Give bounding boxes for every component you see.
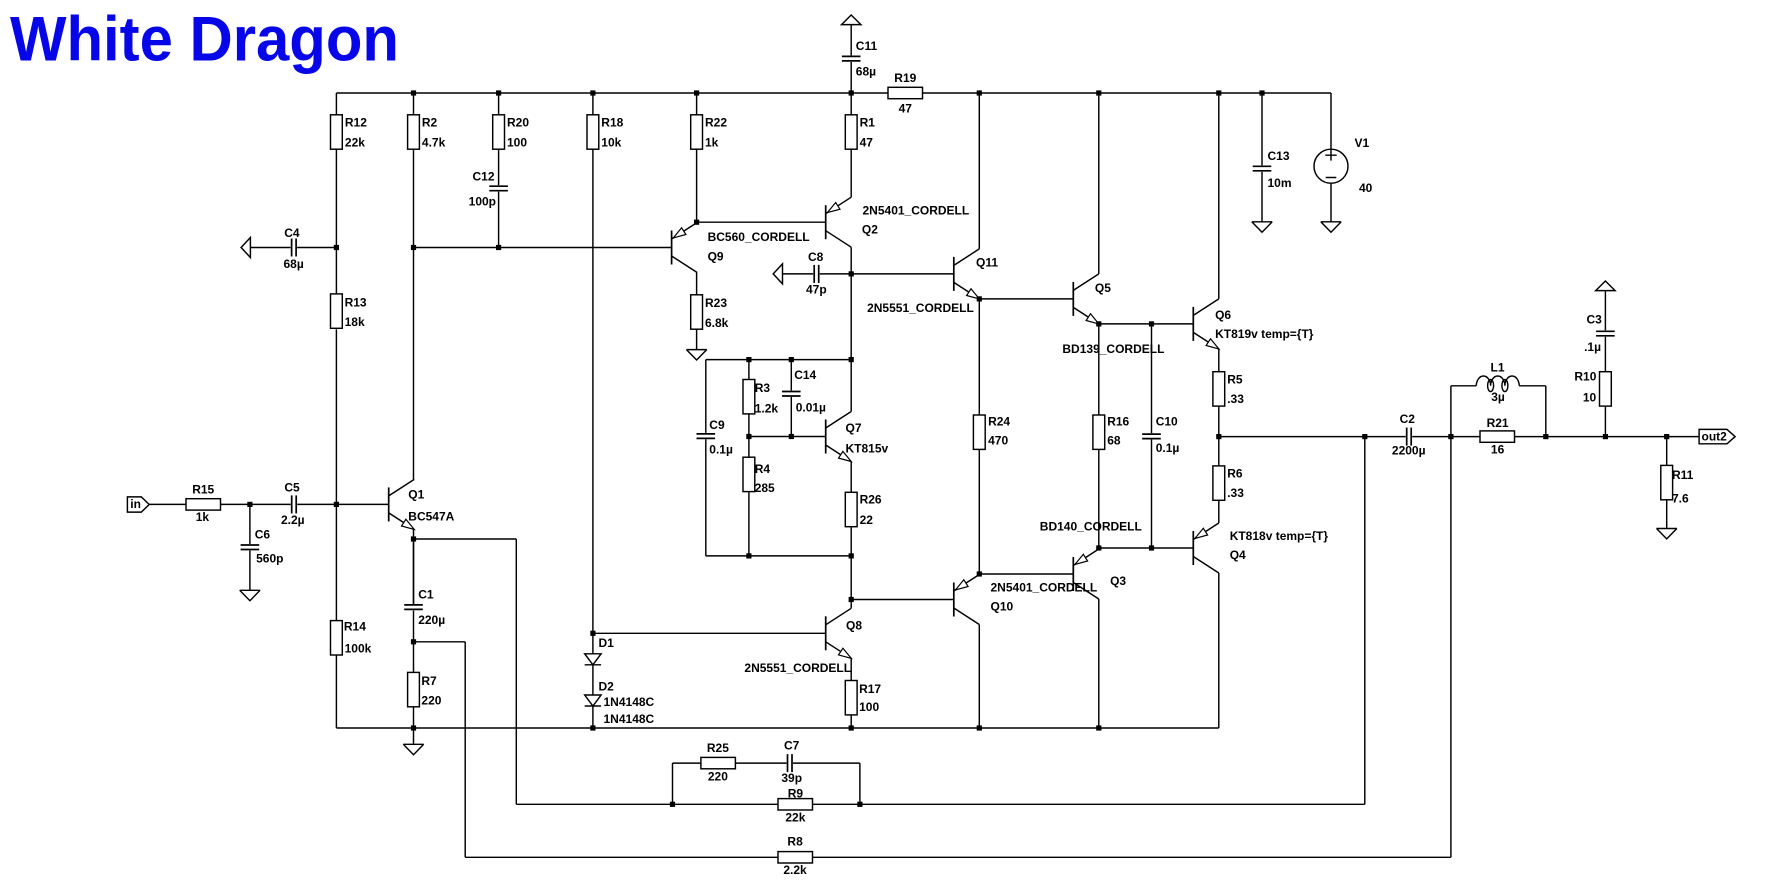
- svg-text:68µ: 68µ: [856, 64, 876, 78]
- svg-text:.33: .33: [1227, 486, 1244, 500]
- svg-text:Q5: Q5: [1095, 281, 1111, 295]
- svg-text:68: 68: [1107, 434, 1121, 448]
- svg-text:C6: C6: [255, 527, 271, 541]
- svg-text:4.7k: 4.7k: [422, 136, 446, 150]
- svg-text:220: 220: [708, 769, 728, 783]
- svg-text:R5: R5: [1227, 372, 1243, 386]
- svg-text:22k: 22k: [345, 136, 365, 150]
- svg-text:2.2µ: 2.2µ: [281, 513, 305, 527]
- svg-text:285: 285: [755, 481, 775, 495]
- svg-text:R14: R14: [344, 620, 366, 634]
- svg-text:C2: C2: [1400, 412, 1416, 426]
- svg-text:47: 47: [860, 136, 874, 150]
- svg-text:R24: R24: [988, 415, 1010, 429]
- svg-text:10: 10: [1583, 391, 1597, 405]
- svg-text:Q1: Q1: [408, 488, 424, 502]
- svg-text:R7: R7: [421, 674, 437, 688]
- svg-text:C9: C9: [709, 418, 725, 432]
- svg-text:C3: C3: [1586, 313, 1602, 327]
- svg-text:2N5551_CORDELL: 2N5551_CORDELL: [744, 661, 851, 675]
- svg-text:470: 470: [988, 434, 1008, 448]
- svg-text:2N5401_CORDELL: 2N5401_CORDELL: [991, 580, 1098, 594]
- svg-text:.33: .33: [1227, 392, 1244, 406]
- svg-text:68µ: 68µ: [284, 257, 304, 271]
- svg-text:R2: R2: [422, 116, 438, 130]
- svg-text:1N4148C: 1N4148C: [604, 695, 655, 709]
- svg-text:L1: L1: [1490, 361, 1504, 375]
- svg-text:47p: 47p: [806, 283, 827, 297]
- svg-text:R23: R23: [705, 296, 727, 310]
- svg-text:BC560_CORDELL: BC560_CORDELL: [708, 230, 810, 244]
- svg-text:1N4148C: 1N4148C: [604, 712, 655, 726]
- svg-text:C10: C10: [1156, 415, 1178, 429]
- svg-text:Q2: Q2: [862, 223, 878, 237]
- svg-text:7.6: 7.6: [1672, 491, 1689, 505]
- svg-text:BC547A: BC547A: [408, 509, 454, 523]
- svg-text:0.01µ: 0.01µ: [796, 400, 826, 414]
- svg-text:in: in: [130, 497, 141, 511]
- svg-text:16: 16: [1491, 442, 1505, 456]
- svg-text:R3: R3: [755, 381, 771, 395]
- svg-text:220µ: 220µ: [418, 613, 445, 627]
- svg-text:1k: 1k: [705, 136, 719, 150]
- svg-text:R21: R21: [1487, 416, 1509, 430]
- svg-text:.1µ: .1µ: [1584, 340, 1601, 354]
- svg-text:6.8k: 6.8k: [705, 316, 729, 330]
- svg-text:Q6: Q6: [1215, 308, 1231, 322]
- svg-text:10m: 10m: [1268, 176, 1292, 190]
- svg-text:C4: C4: [284, 226, 300, 240]
- svg-text:C11: C11: [856, 39, 878, 53]
- svg-text:R8: R8: [787, 835, 803, 849]
- svg-text:D2: D2: [599, 679, 615, 693]
- svg-text:Q9: Q9: [708, 249, 724, 263]
- svg-text:R16: R16: [1107, 415, 1129, 429]
- svg-text:100p: 100p: [469, 195, 496, 209]
- svg-text:R9: R9: [788, 786, 804, 800]
- svg-text:V1: V1: [1355, 136, 1370, 150]
- svg-text:R17: R17: [859, 682, 881, 696]
- svg-text:0.1µ: 0.1µ: [709, 443, 733, 457]
- svg-text:C8: C8: [808, 250, 824, 264]
- svg-text:White Dragon: White Dragon: [10, 4, 399, 74]
- svg-text:C5: C5: [284, 481, 300, 495]
- svg-text:out2: out2: [1702, 429, 1728, 443]
- svg-text:Q7: Q7: [846, 421, 862, 435]
- svg-text:KT815v: KT815v: [846, 441, 889, 455]
- svg-text:22k: 22k: [785, 811, 805, 825]
- svg-text:100: 100: [507, 136, 527, 150]
- svg-text:BD139_CORDELL: BD139_CORDELL: [1062, 342, 1164, 356]
- svg-text:2N5551_CORDELL: 2N5551_CORDELL: [867, 301, 974, 315]
- svg-text:2N5401_CORDELL: 2N5401_CORDELL: [863, 203, 970, 217]
- svg-text:100k: 100k: [345, 642, 372, 656]
- svg-text:R22: R22: [705, 116, 727, 130]
- svg-text:2200µ: 2200µ: [1392, 443, 1426, 457]
- svg-text:R15: R15: [192, 483, 214, 497]
- svg-text:BD140_CORDELL: BD140_CORDELL: [1040, 520, 1142, 534]
- svg-text:22: 22: [860, 513, 874, 527]
- svg-text:R1: R1: [860, 116, 876, 130]
- svg-text:C7: C7: [784, 738, 800, 752]
- svg-text:10k: 10k: [601, 136, 621, 150]
- svg-text:KT819v temp={T}: KT819v temp={T}: [1215, 327, 1314, 341]
- svg-text:2.2k: 2.2k: [783, 863, 807, 877]
- svg-text:KT818v temp={T}: KT818v temp={T}: [1230, 529, 1329, 543]
- svg-text:Q3: Q3: [1110, 574, 1126, 588]
- svg-text:Q8: Q8: [846, 618, 862, 632]
- svg-text:39p: 39p: [781, 771, 802, 785]
- svg-text:C14: C14: [794, 368, 816, 382]
- svg-text:R20: R20: [507, 116, 529, 130]
- svg-text:3µ: 3µ: [1491, 390, 1505, 404]
- svg-text:Q11: Q11: [976, 255, 998, 269]
- svg-text:1.2k: 1.2k: [755, 402, 779, 416]
- svg-text:560p: 560p: [256, 552, 283, 566]
- svg-text:C1: C1: [418, 588, 434, 602]
- svg-text:C12: C12: [472, 170, 494, 184]
- svg-text:R18: R18: [601, 116, 623, 130]
- svg-text:R11: R11: [1672, 468, 1694, 482]
- svg-text:R25: R25: [707, 741, 729, 755]
- svg-text:Q4: Q4: [1230, 548, 1246, 562]
- svg-text:R19: R19: [894, 71, 916, 85]
- svg-text:R13: R13: [345, 295, 367, 309]
- svg-text:R12: R12: [345, 116, 367, 130]
- svg-text:0.1µ: 0.1µ: [1156, 441, 1180, 455]
- svg-text:40: 40: [1359, 181, 1373, 195]
- svg-text:100: 100: [859, 700, 879, 714]
- svg-text:R4: R4: [755, 462, 771, 476]
- svg-text:R6: R6: [1227, 467, 1243, 481]
- svg-text:47: 47: [899, 101, 913, 115]
- svg-text:C13: C13: [1268, 149, 1290, 163]
- svg-text:Q10: Q10: [991, 599, 1014, 613]
- svg-text:220: 220: [421, 693, 441, 707]
- svg-text:R26: R26: [860, 492, 882, 506]
- svg-text:R10: R10: [1574, 370, 1596, 384]
- svg-text:1k: 1k: [196, 510, 210, 524]
- svg-text:D1: D1: [599, 636, 615, 650]
- svg-text:18k: 18k: [345, 315, 365, 329]
